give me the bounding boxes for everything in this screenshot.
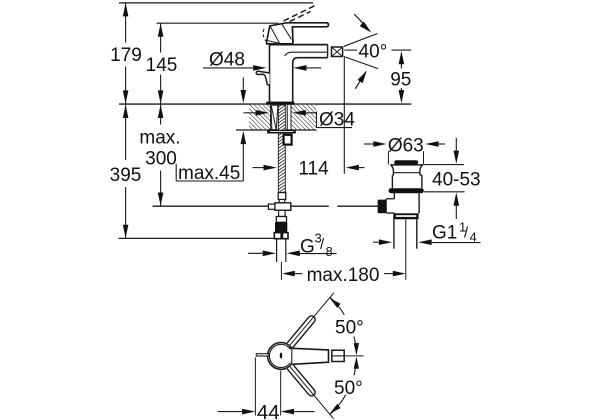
spout plan (horizontal) <box>289 348 329 364</box>
svg-text:95: 95 <box>390 70 411 91</box>
dimension line 179/395 <box>125 3 127 238</box>
washer under deck <box>267 130 296 134</box>
upper 40deg pointer arrow <box>354 14 364 25</box>
dimension 95 <box>399 51 405 64</box>
dimension line 145/max300 <box>160 23 162 206</box>
waste locking nut <box>393 213 418 219</box>
deck hatch right <box>291 105 317 130</box>
threaded mounting stud <box>278 105 285 192</box>
pop-up rod / max300 reference line <box>153 205 329 207</box>
dimension Ø34 <box>244 112 258 114</box>
pop-up rod knob on body <box>256 71 269 85</box>
svg-text:G1: G1 <box>432 223 457 244</box>
waste gasket flange <box>389 188 424 193</box>
deck hole edges <box>270 105 272 130</box>
waste neck flare <box>391 165 394 175</box>
dimension G3/8 <box>248 252 265 254</box>
dimension max.45 bottom arrow <box>242 144 244 181</box>
fitting neck <box>279 210 286 216</box>
svg-text:max.45: max.45 <box>178 163 240 184</box>
mounting nut / rod guide <box>284 135 292 145</box>
handle swing arc (dashed) <box>263 29 266 41</box>
svg-text:40-53: 40-53 <box>432 170 481 191</box>
svg-text:179: 179 <box>110 45 142 66</box>
hose-end reference line (395 datum) <box>119 237 276 239</box>
lever plan rotated -50 <box>287 364 314 395</box>
dimension Ø63 <box>364 143 376 145</box>
waste: Ø63 extension lines <box>387 151 389 164</box>
G3/8 thread tail <box>276 239 278 262</box>
arrowheads 179 <box>123 3 129 16</box>
aerator plan box <box>332 350 344 361</box>
deck bottom line <box>236 129 317 131</box>
dimension max.45 top arrow <box>242 78 244 96</box>
svg-text:114: 114 <box>298 159 329 180</box>
svg-text:50°: 50° <box>334 378 363 399</box>
arrowheads 395 <box>123 105 129 118</box>
handle lever bar <box>287 23 329 43</box>
spout end face <box>327 45 329 58</box>
pop-up rod in hole <box>286 105 288 129</box>
dimension 40-53 <box>424 164 465 166</box>
tailpiece centerline <box>405 219 407 280</box>
body left edge <box>269 45 271 102</box>
waste lower body <box>393 193 395 199</box>
ray +50 <box>290 293 334 346</box>
pop-up cross fitting <box>275 203 291 211</box>
waste tailpiece <box>393 219 395 248</box>
deck hatch left <box>249 105 271 130</box>
upper 50deg arc <box>330 298 344 315</box>
dimension 44 <box>254 358 256 416</box>
svg-text:max.: max. <box>139 128 180 149</box>
waste upper body <box>392 174 393 176</box>
spout underside + body right edge <box>293 58 328 102</box>
pop-up rod plan tab <box>256 354 269 356</box>
svg-text:8: 8 <box>326 244 333 259</box>
arrowheads 145 <box>158 23 164 36</box>
svg-text:44: 44 <box>257 401 280 420</box>
svg-text:145: 145 <box>146 55 178 76</box>
hose centerline <box>280 262 282 280</box>
body outer circle <box>268 343 295 370</box>
basin hole stabilizer wedge <box>271 105 278 129</box>
aerator box with cross <box>332 47 343 57</box>
reference line top (179 datum) <box>119 2 313 4</box>
svg-text:40°: 40° <box>359 42 388 63</box>
pop-up rod knurled knob <box>378 200 387 214</box>
dimension 114 <box>253 167 265 169</box>
spray cone centerline + 40 deg label <box>344 49 357 51</box>
center mark <box>280 353 283 359</box>
deck reference line <box>119 103 411 105</box>
svg-text:Ø63: Ø63 <box>388 136 424 157</box>
spray cone lower line <box>344 57 378 69</box>
supply nipple <box>278 193 286 200</box>
ray horizontal <box>344 355 363 357</box>
spray cone upper line <box>344 34 378 47</box>
svg-text:Ø34: Ø34 <box>319 110 355 131</box>
lower 50deg arc <box>354 358 357 375</box>
svg-text:50°: 50° <box>335 318 364 339</box>
svg-text:max.180: max.180 <box>307 265 380 286</box>
svg-text:4: 4 <box>470 230 477 245</box>
faucet body top edge <box>269 44 328 46</box>
text gaps <box>107 43 144 67</box>
hose connector <box>276 217 286 223</box>
spout inner seam <box>285 52 328 56</box>
max.45 label shelf <box>175 164 177 181</box>
dimension G1 1/4 <box>373 241 381 243</box>
body inner circle <box>269 344 292 367</box>
ray -50 <box>290 366 334 419</box>
svg-text:395: 395 <box>110 165 142 186</box>
lower 40deg pointer arrow <box>355 79 362 89</box>
waste side port <box>386 198 394 200</box>
dimension max.180 <box>282 271 295 277</box>
hose nut (dark) <box>275 222 287 232</box>
svg-text:G: G <box>300 237 315 258</box>
handle knob <box>267 23 293 44</box>
waste plug cap <box>394 160 418 164</box>
svg-text:300: 300 <box>145 149 177 170</box>
lever plan rotated +50 <box>287 316 314 347</box>
faucet base plate <box>266 102 294 105</box>
waste top rim <box>390 164 423 166</box>
spout tip projection line <box>343 58 345 174</box>
faucet handle raised (dashed) <box>284 6 315 21</box>
G3/8 union nut <box>274 233 288 239</box>
arrowheads max300 <box>158 105 164 118</box>
reference line (145 datum) <box>157 22 279 24</box>
